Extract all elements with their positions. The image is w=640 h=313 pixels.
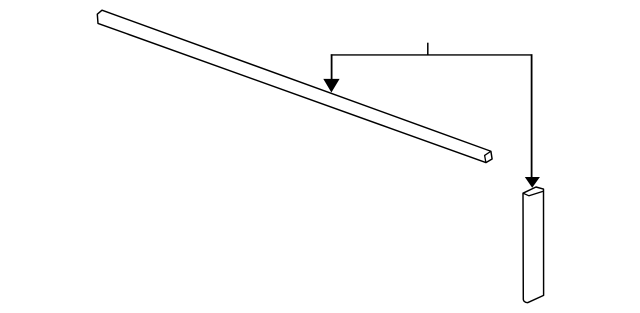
callout left leader stem bbox=[331, 54, 333, 80]
arrowhead to end block bbox=[525, 177, 540, 188]
long molding strip body bbox=[97, 10, 492, 162]
callout bracket horizontal line bbox=[331, 54, 533, 56]
callout right leader stem bbox=[531, 54, 533, 178]
small vertical end block body bbox=[523, 187, 544, 303]
molding right end face inner edges bbox=[485, 151, 491, 162]
arrowhead to molding bbox=[323, 79, 339, 93]
label 1 tick bbox=[427, 43, 429, 55]
end block top face inner edge bbox=[523, 191, 543, 196]
